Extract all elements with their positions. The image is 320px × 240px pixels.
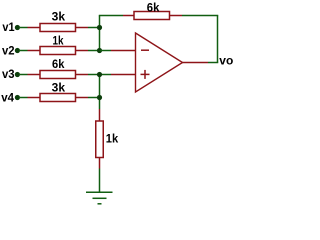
resistor R4 3k body — [40, 94, 76, 102]
junction dot B — [97, 48, 102, 53]
terminal dot v3 — [15, 72, 20, 77]
pin R1 left (red) — [28, 27, 41, 29]
op-amp output pin (red) — [183, 62, 209, 64]
pin R4 left (red) — [28, 97, 41, 99]
junction dot D — [97, 95, 102, 100]
pin R2 left (red) — [28, 50, 41, 52]
terminal dot v1 — [15, 25, 20, 30]
wire R1 to junction A (green) — [88, 27, 100, 29]
svg-text:v1: v1 — [2, 20, 14, 34]
junction dot A — [97, 25, 102, 30]
wire junction B to op-amp minus pin (green) — [100, 50, 112, 52]
ground bar 2 — [93, 197, 107, 199]
resistor R1 3k body — [40, 24, 76, 32]
pin R3 left (red) — [28, 74, 41, 76]
op-amp plus symbol vertical — [144, 70, 146, 79]
wire R5 to output corner (green) — [182, 15, 218, 17]
wire junction C to op-amp plus pin (green) — [100, 74, 112, 76]
wire R6 to ground (green) — [99, 169, 101, 193]
pin R1 right (red) — [76, 27, 89, 29]
resistor R6 1k body (vertical) — [96, 121, 104, 158]
svg-text:v3: v3 — [2, 67, 15, 81]
vertical bus top rail to junction B (green) — [99, 16, 101, 51]
feedback resistor R5 6k body — [134, 12, 170, 20]
vertical feedback wire (green) — [217, 16, 219, 63]
vertical bus junction C to R6 (green) — [99, 75, 101, 110]
top rail wire to feedback resistor (green) — [99, 15, 123, 17]
resistor R2 1k body — [40, 47, 76, 55]
wire v1 to R1 (green) — [19, 27, 28, 29]
op-amp plus symbol horizontal — [141, 73, 150, 75]
svg-text:1k: 1k — [106, 132, 119, 146]
pin R6 bottom (red) — [99, 158, 101, 169]
svg-text:v4: v4 — [1, 90, 14, 104]
pin R5 left (red) — [123, 15, 134, 17]
resistor R3 6k body — [40, 71, 76, 79]
wire R2 to junction B (green) — [88, 50, 100, 52]
op-amp minus pin (red) — [111, 50, 136, 52]
terminal dot v4 — [15, 95, 20, 100]
output corner wire (green) — [208, 62, 218, 64]
pin R3 right (red) — [76, 74, 89, 76]
op-amp U1 triangle — [136, 33, 183, 92]
pin R5 right (red) — [170, 15, 183, 17]
svg-text:3k: 3k — [52, 80, 66, 94]
svg-text:3k: 3k — [52, 9, 66, 23]
wire R3 to junction C (green) — [88, 74, 100, 76]
svg-text:vo: vo — [219, 53, 233, 67]
op-amp plus pin (red) — [111, 74, 136, 76]
pin R6 top (red) — [99, 109, 101, 121]
pin R2 right (red) — [76, 50, 89, 52]
svg-text:v2: v2 — [2, 43, 15, 57]
svg-text:1k: 1k — [53, 33, 64, 47]
wire R4 to junction D (green) — [88, 97, 100, 99]
ground bar 3 — [98, 203, 102, 205]
wire v4 to R4 (green) — [19, 97, 28, 99]
terminal dot v2 — [15, 48, 20, 53]
wire v3 to R3 (green) — [19, 74, 28, 76]
wire v2 to R2 (green) — [19, 50, 28, 52]
junction dot C — [97, 72, 102, 77]
op-amp minus symbol — [141, 49, 149, 51]
ground bar 1 — [86, 191, 113, 193]
pin R4 right (red) — [76, 97, 89, 99]
svg-text:6k: 6k — [147, 0, 160, 14]
svg-text:6k: 6k — [52, 57, 65, 71]
